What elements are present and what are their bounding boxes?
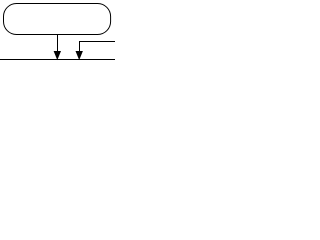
arrowhead 2 <box>76 51 83 60</box>
wire: horizontal feed line entering from right edge, turning down <box>80 42 116 52</box>
wire: bottom horizontal line (full width) <box>0 59 115 61</box>
arrowhead 1 <box>54 51 61 60</box>
wire: arrow 1 shaft from terminal bottom <box>57 35 59 52</box>
terminal (rounded-rectangle flowchart start/end shape) <box>4 4 111 35</box>
